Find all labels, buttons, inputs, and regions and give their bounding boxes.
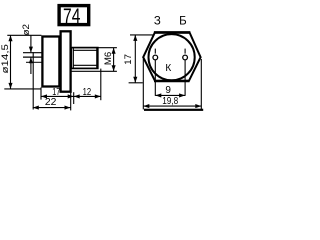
dim O14,5: dimension line	[10, 35, 12, 89]
dim 9: left arrowhead	[155, 93, 161, 97]
dim 9: dimension line	[155, 94, 185, 96]
dim 19,8: left extension line	[142, 59, 144, 109]
front view: hexagon thick bottom flat	[154, 80, 190, 83]
svg-text:9: 9	[165, 85, 171, 96]
dim 12: dimension line	[74, 95, 101, 97]
dim 9: right arrowhead	[179, 93, 185, 97]
figure number box 74	[59, 6, 89, 25]
dim O2: dimension line lower part	[30, 58, 32, 75]
svg-text:М6: М6	[103, 52, 114, 65]
dim 17 side: dimension line	[41, 95, 74, 97]
side view: pin tip / extension line for dim 22	[32, 52, 34, 109]
svg-text:19,8: 19,8	[162, 96, 178, 107]
front view: can circle	[149, 34, 195, 80]
dim 22: dimension line	[33, 107, 71, 109]
side view: can body (cylinder O14,5)	[42, 37, 59, 87]
dim 17 side: right arrowhead	[68, 94, 74, 98]
svg-text:74: 74	[63, 4, 80, 28]
svg-text:17: 17	[123, 54, 134, 65]
dim 9: right extension line from pin	[184, 60, 186, 96]
side view: collar line at thread start	[72, 47, 74, 68]
dim M6: dimension line	[113, 48, 115, 72]
dim 12: right extension line	[100, 69, 102, 101]
dim O14,5: top arrowhead	[8, 35, 12, 41]
side view: pin (lead) bottom line with extension	[23, 56, 42, 58]
dim M6: bottom arrowhead	[112, 65, 116, 71]
dim 22: right arrowhead	[65, 106, 71, 110]
dim 17 front: top arrowhead	[133, 35, 137, 41]
dim O2: upper arrowhead	[29, 47, 33, 53]
dim 17 front: bottom arrowhead	[133, 77, 137, 83]
dim 17 front: top extension line	[130, 34, 154, 36]
side view: hex flange	[61, 31, 71, 91]
dim 17 front: bottom extension line	[129, 82, 143, 84]
dim O14,5: top extension line	[7, 34, 41, 36]
side view: thread bottom line	[73, 64, 96, 66]
side view: thread top line	[73, 49, 96, 51]
dim 19,8: dimension line	[143, 105, 201, 107]
dim 12: left arrowhead	[74, 94, 80, 98]
dim 9: left extension line from pin	[154, 60, 156, 96]
front view: left pin circle	[153, 55, 158, 60]
front view: hexagon outline	[143, 33, 200, 81]
dim M6: bottom extension line	[71, 70, 117, 72]
side view: stud end bar	[96, 47, 98, 69]
front view: left pin center tick	[154, 49, 156, 54]
svg-text:З: З	[154, 15, 161, 27]
dim O14,5: bottom arrowhead	[8, 83, 12, 89]
side view: short axis line under pin	[26, 61, 42, 63]
dim 22: right extension line	[70, 93, 72, 111]
dim O2: lower arrowhead	[29, 57, 33, 63]
dim O14,5: bottom extension line	[4, 88, 41, 90]
side view: pin (lead) top line with extension	[23, 52, 42, 54]
dim 17 side: left arrowhead	[41, 94, 47, 98]
svg-text:ø2: ø2	[21, 24, 32, 36]
side view: threaded stud M6 outline	[71, 48, 98, 69]
front view: right pin center tick	[184, 49, 186, 54]
dim 17 side: left extension line	[40, 87, 42, 99]
front view: right pin circle	[183, 55, 188, 60]
svg-text:12: 12	[83, 87, 92, 98]
baseline under front view	[144, 109, 203, 111]
dim M6: top extension line	[98, 47, 117, 49]
dim 19,8: left arrowhead	[143, 104, 149, 108]
dim O2: dimension line upper part	[30, 35, 32, 52]
dim 19,8: right arrowhead	[195, 104, 201, 108]
front view: hexagon thick top flat	[154, 31, 190, 34]
dim 17 front: dimension line	[134, 35, 136, 83]
svg-text:22: 22	[45, 97, 57, 108]
svg-text:К: К	[165, 63, 171, 74]
dim M6: top arrowhead	[112, 48, 116, 54]
svg-text:Б: Б	[179, 15, 187, 27]
dim 17/12 side: middle extension line	[73, 92, 75, 104]
dim 22: left arrowhead	[33, 106, 39, 110]
dim 19,8: right extension line	[200, 59, 202, 109]
dim 12: right arrowhead	[95, 94, 101, 98]
svg-text:ø14,5: ø14,5	[0, 44, 11, 74]
